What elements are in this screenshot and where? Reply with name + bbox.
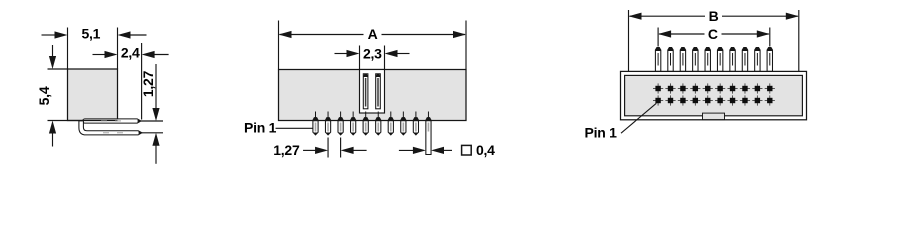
top view pin 2 (668, 48, 673, 72)
top view pin 6 (717, 48, 722, 72)
square symbol for 0,4 (462, 145, 472, 155)
dimension B left arrowhead (629, 13, 642, 20)
contact square row 2 col 6 (715, 95, 725, 105)
dimension 5,1 left arrow (55, 31, 68, 38)
top view: extension line C right (769, 28, 771, 47)
top view pin 9 (755, 48, 760, 72)
top view pin 10 (767, 48, 772, 72)
left view: extension line for dim 5,4 top (48, 68, 68, 70)
svg-text:1,27: 1,27 (273, 142, 300, 158)
dim 1,27 extension line pin3 (340, 138, 342, 158)
dimension 1,27 bottom arrow (152, 133, 159, 146)
connector body inner outline top view (625, 75, 803, 115)
svg-text:0,4: 0,4 (476, 142, 495, 158)
svg-text:C: C (708, 26, 718, 42)
front view pin 3 (338, 112, 343, 135)
front view pin 5 (363, 112, 368, 135)
lower bent pin (side view) (79, 121, 142, 135)
polarization notch top view (703, 113, 725, 120)
left view: extension line above body right edge (117, 28, 119, 69)
dim 1,27 extension line pin2 (327, 138, 329, 158)
body bottom edge redrawn over pins (68, 120, 118, 122)
dim 2,3 extension line right (384, 46, 386, 70)
dimension 2,3 left arrow (347, 50, 360, 57)
contact square row 2 col 7 (727, 95, 737, 105)
contact square row 2 col 10 (765, 95, 775, 105)
contact square row 2 col 1 (653, 95, 663, 105)
top view pin 3 (680, 48, 685, 72)
front view pin 10 (426, 112, 431, 155)
front view pin 6 (376, 112, 381, 135)
dimension A right arrowhead (453, 31, 466, 38)
left view: extension line above body left edge (67, 28, 69, 69)
upper pin dark tip (138, 119, 141, 123)
contact square row 2 col 5 (703, 95, 713, 105)
dimension 2,3 right arrow (385, 50, 398, 57)
Pin 1 leader line front view (276, 127, 313, 129)
top view pin 1 (655, 48, 660, 72)
contact square row 1 col 9 (752, 83, 762, 93)
dimension A left arrowhead (279, 31, 292, 38)
dim 1,27 extension line lower pin (142, 132, 163, 134)
dimension 0,4 left arrow (413, 147, 426, 154)
svg-text:2,4: 2,4 (121, 45, 140, 61)
connector body front view (279, 70, 467, 121)
contact square row 2 col 3 (678, 95, 688, 105)
dimension 5,4 top arrow (49, 56, 56, 69)
contact square row 2 col 8 (740, 95, 750, 105)
contact square row 2 col 4 (690, 95, 700, 105)
contact square row 1 col 10 (765, 83, 775, 93)
dimension 5,4 bottom arrow (49, 121, 56, 134)
svg-text:2,3: 2,3 (363, 46, 382, 62)
dimension C left arrowhead (658, 30, 671, 37)
contact square row 1 col 5 (703, 83, 713, 93)
svg-text:Pin 1: Pin 1 (244, 120, 277, 136)
contact square row 1 col 8 (740, 83, 750, 93)
slot contact pin 2 (376, 74, 381, 109)
contact square row 2 col 2 (665, 95, 675, 105)
dimension 2,4 left arrow (105, 51, 118, 58)
front view: extension line A left (278, 21, 280, 70)
connector body outer outline top view (621, 71, 807, 119)
top view pin 8 (742, 48, 747, 72)
dimension 1,27 left arrow (front) (315, 147, 328, 154)
contact square row 1 col 1 (653, 83, 663, 93)
dimension B right arrowhead (786, 13, 799, 20)
front view: extension line A right (465, 21, 467, 70)
svg-text:5,1: 5,1 (81, 26, 100, 42)
dimension 0,4 right arrow (431, 147, 444, 154)
dimension 2,4 right arrow (142, 51, 155, 58)
dimension C line left part (659, 33, 704, 35)
slot contact pin 1 (363, 74, 368, 109)
front view pin 4 (351, 112, 356, 135)
left view: extension line at pin tips for dim 2,4 (141, 43, 143, 120)
svg-text:Pin 1: Pin 1 (585, 124, 618, 140)
dimension 5,1 right arrow (118, 31, 131, 38)
contact square row 1 col 4 (690, 83, 700, 93)
contact square row 1 col 6 (715, 83, 725, 93)
dimension A line right part (382, 34, 466, 36)
dimension 1,27 right arrow (front) (341, 147, 354, 154)
svg-text:B: B (709, 8, 719, 24)
polarization slot front view (360, 70, 385, 114)
dimension B line left part (630, 15, 706, 17)
dim 1,27 extension line upper pin (141, 120, 163, 122)
dimension C line right part (722, 33, 769, 35)
front view pin 8 (401, 112, 406, 135)
top view: extension line B right (798, 10, 800, 71)
top view: extension line C left (657, 28, 659, 47)
dimension B line right part (722, 15, 798, 17)
top view pin 7 (730, 48, 735, 72)
contact square row 2 col 9 (752, 95, 762, 105)
top view pin 4 (693, 48, 698, 72)
svg-text:5,4: 5,4 (36, 86, 52, 105)
pin surface tick marks (101, 121, 123, 133)
upper bent pin (side view) (83, 119, 141, 123)
contact square row 1 col 7 (727, 83, 737, 93)
dimension 1,27 top arrow (152, 108, 159, 121)
front view pin 2 (325, 112, 330, 135)
dimension A line left part (280, 34, 364, 36)
Pin 1 leader line top view (621, 103, 656, 133)
left view: extension line for dim 5,4 bottom (48, 120, 68, 122)
lower pin dark tip (139, 131, 142, 135)
top view pin 5 (705, 48, 710, 72)
svg-text:1,27: 1,27 (140, 70, 156, 97)
dimension C right arrowhead (757, 30, 770, 37)
dim 2,3 extension line left (359, 46, 361, 70)
front view pin 7 (388, 112, 393, 135)
front view pin 9 (413, 112, 418, 135)
contact square row 1 col 2 (665, 83, 675, 93)
top view: extension line B left (628, 10, 630, 71)
front view pin 1 (313, 112, 318, 135)
svg-text:A: A (368, 26, 378, 42)
contact square row 1 col 3 (678, 83, 688, 93)
connector body side view (68, 69, 118, 121)
